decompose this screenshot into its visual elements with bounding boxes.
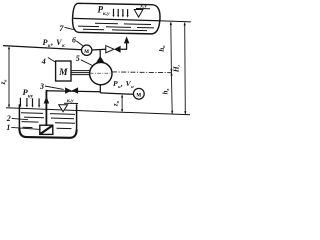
lower tank level / datum line xyxy=(6,108,190,115)
upper tank liquid hatch row 2 xyxy=(78,26,154,28)
svg-text:3: 3 xyxy=(39,82,44,91)
pump axis reference line xyxy=(112,71,172,74)
motor box 4 xyxy=(56,61,71,81)
leader 6 xyxy=(76,41,83,47)
upper tank liquid surface xyxy=(74,18,160,20)
pipe gauge to check valve xyxy=(92,48,106,51)
dimension H_g (geometric head) xyxy=(184,23,187,115)
vacuum gauge xyxy=(133,88,144,99)
manometer U6 xyxy=(82,45,92,55)
suction pipe to vacuum gauge xyxy=(100,93,133,94)
dimension h_n (discharge height) xyxy=(170,22,173,72)
svg-text:6: 6 xyxy=(72,36,76,45)
svg-text:м: м xyxy=(84,47,89,55)
dimension z_n xyxy=(121,96,123,112)
discharge pipe left section Pk Vk xyxy=(3,46,81,50)
upper tank liquid hatch row 3 xyxy=(83,29,147,30)
pressure arrows on upper level xyxy=(114,9,128,16)
suction pipe from valve 3 xyxy=(47,91,101,92)
svg-text:М: М xyxy=(58,68,68,78)
leader 3 xyxy=(45,86,64,89)
riser flow arrow xyxy=(44,96,50,103)
leader 2 xyxy=(12,118,28,119)
lower tank right wall xyxy=(76,104,78,130)
suction riser from lower tank xyxy=(45,92,47,127)
pump outlet riser xyxy=(99,50,101,58)
arrow into tank bottom xyxy=(124,36,129,43)
upper pressure tank 7 shell xyxy=(73,3,160,34)
svg-text:1: 1 xyxy=(6,123,10,132)
pressure arrows on lower level xyxy=(20,98,39,106)
pump axis dash-dot inside xyxy=(90,72,112,74)
upper level reference line to the right xyxy=(159,21,191,22)
leader 7 xyxy=(65,27,74,29)
svg-text:4: 4 xyxy=(41,57,46,66)
lower tank liquid hatch xyxy=(21,113,75,115)
pipe valve to tank elbow xyxy=(121,43,127,50)
svg-text:м: м xyxy=(136,90,141,98)
upper tank liquid hatch row 1 xyxy=(95,23,151,24)
pump U5 circle xyxy=(90,62,112,84)
lower tank left wall xyxy=(18,104,20,130)
dimension z_k xyxy=(8,48,10,107)
lower tank bottom xyxy=(19,129,76,138)
pump flow arrow xyxy=(96,56,105,63)
svg-text:5: 5 xyxy=(76,54,80,63)
pump suction stub xyxy=(99,85,101,93)
gate valve 3 xyxy=(65,87,78,93)
leader 5 xyxy=(81,60,93,66)
svg-text:2: 2 xyxy=(6,114,11,123)
foot valve strainer 1 xyxy=(40,125,53,134)
dimension h_v (suction height) xyxy=(170,72,173,114)
check valve (open + filled triangles) xyxy=(106,46,114,53)
motor shaft coupling xyxy=(71,71,90,75)
svg-text:Рн, Vн: Рн, Vн xyxy=(113,79,134,89)
leader 1 xyxy=(11,127,40,129)
riser elbow xyxy=(46,90,48,92)
leader 4 xyxy=(48,58,56,63)
